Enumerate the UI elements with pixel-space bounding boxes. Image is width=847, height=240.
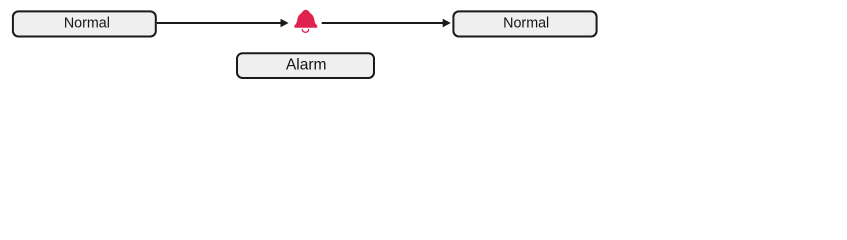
arrowhead edge 1 xyxy=(281,19,289,28)
wire edge 1: Normal(left) to bell xyxy=(157,22,282,24)
wire edge 2: bell to Normal(right) xyxy=(322,22,444,24)
svg-text:Alarm: Alarm xyxy=(286,57,327,74)
node Alarm xyxy=(237,53,374,78)
bell icon: bottom bar xyxy=(294,25,317,28)
svg-text:Normal: Normal xyxy=(503,16,549,32)
arrowhead edge 2 xyxy=(443,19,451,28)
bell icon (alarm): dome xyxy=(294,10,317,32)
node Normal (left) xyxy=(13,11,156,36)
svg-text:Normal: Normal xyxy=(64,16,110,32)
bell icon: clapper xyxy=(302,30,308,33)
node Normal (right) xyxy=(453,11,596,36)
